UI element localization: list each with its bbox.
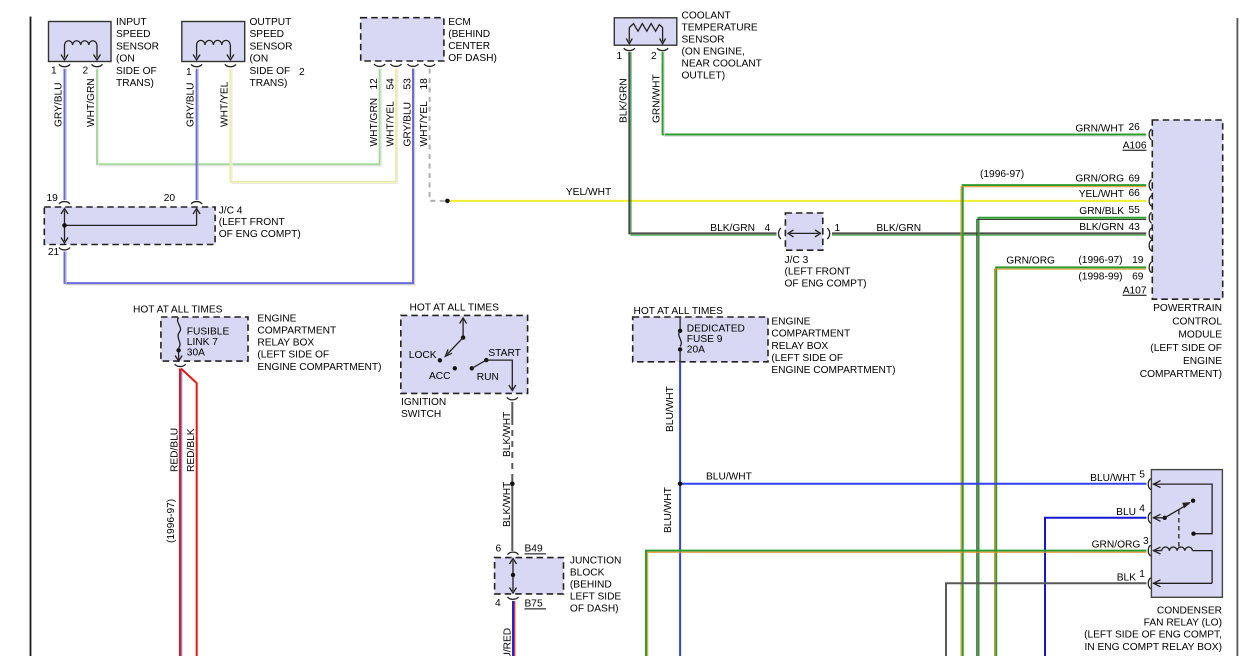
svg-text:SENSOR: SENSOR bbox=[682, 34, 725, 45]
svg-text:WHT/GRN: WHT/GRN bbox=[86, 78, 97, 127]
svg-text:ENGINE COMPARTMENT): ENGINE COMPARTMENT) bbox=[771, 365, 895, 376]
svg-text:ECM: ECM bbox=[448, 17, 471, 28]
svg-text:OF DASH): OF DASH) bbox=[448, 53, 497, 64]
wire GRN/WHT coolant sensor pin2 to PCM pin26 bbox=[663, 52, 1147, 135]
svg-text:53: 53 bbox=[403, 78, 414, 90]
wire RED/BLU from fusible link down bbox=[179, 369, 181, 657]
svg-text:SENSOR: SENSOR bbox=[116, 41, 159, 52]
svg-text:BLK/GRN: BLK/GRN bbox=[710, 223, 755, 234]
wire BLU to relay pin4 bbox=[1045, 518, 1146, 656]
splice dot BLK/WHT bbox=[510, 482, 515, 487]
relay pin arcs bbox=[1148, 479, 1150, 490]
svg-text:COMPARTMENT): COMPARTMENT) bbox=[1140, 369, 1222, 380]
svg-text:RELAY BOX: RELAY BOX bbox=[771, 341, 828, 352]
powertrain control module box bbox=[1152, 120, 1222, 299]
svg-text:MODULE: MODULE bbox=[1178, 330, 1222, 341]
svg-text:BLK/WHT: BLK/WHT bbox=[502, 412, 513, 457]
svg-text:LINK 7: LINK 7 bbox=[187, 337, 218, 348]
svg-text:RED/BLK: RED/BLK bbox=[186, 428, 197, 472]
svg-text:19: 19 bbox=[1132, 255, 1144, 266]
J/C3 internal double arrow bbox=[790, 232, 819, 234]
svg-text:69: 69 bbox=[1132, 271, 1144, 282]
svg-text:(1996-97): (1996-97) bbox=[166, 499, 177, 543]
svg-text:2: 2 bbox=[299, 67, 305, 78]
svg-text:20: 20 bbox=[164, 193, 176, 204]
svg-text:(BEHIND: (BEHIND bbox=[570, 580, 612, 591]
J/C 4 box bbox=[44, 207, 215, 245]
svg-text:LOCK: LOCK bbox=[409, 350, 437, 361]
wire WHT/YEL dashed from ECM pin18 bbox=[430, 69, 448, 201]
svg-text:OUTLET): OUTLET) bbox=[682, 70, 726, 81]
ignition switch connector arc bbox=[507, 397, 518, 399]
svg-text:START: START bbox=[488, 348, 520, 359]
wire BLK/GRN coolant sensor pin1 to J/C3 pin4 bbox=[629, 52, 776, 233]
svg-text:LEFT SIDE: LEFT SIDE bbox=[570, 592, 622, 603]
svg-text:IN ENG COMPT RELAY BOX): IN ENG COMPT RELAY BOX) bbox=[1084, 642, 1222, 653]
svg-text:2: 2 bbox=[83, 66, 89, 77]
svg-text:SPEED: SPEED bbox=[250, 29, 285, 40]
relay internal switch lever bbox=[1153, 517, 1165, 519]
wire WHT/YEL output sensor pin2 to ECM pin54 bbox=[230, 69, 396, 182]
svg-text:WHT/GRN: WHT/GRN bbox=[369, 98, 380, 147]
svg-text:6: 6 bbox=[496, 544, 502, 555]
svg-text:OF ENG COMPT): OF ENG COMPT) bbox=[219, 229, 301, 240]
svg-text:(1996-97): (1996-97) bbox=[1078, 255, 1122, 266]
svg-text:(LEFT FRONT: (LEFT FRONT bbox=[219, 217, 285, 228]
svg-text:21: 21 bbox=[48, 247, 60, 258]
svg-text:RUN: RUN bbox=[477, 372, 499, 383]
svg-text:4: 4 bbox=[765, 223, 771, 234]
svg-text:CENTER: CENTER bbox=[448, 41, 490, 52]
svg-text:(LEFT SIDE OF: (LEFT SIDE OF bbox=[1150, 343, 1222, 354]
svg-text:1: 1 bbox=[835, 223, 841, 234]
svg-text:BLK/GRN: BLK/GRN bbox=[1079, 222, 1124, 233]
svg-text:B75: B75 bbox=[525, 599, 543, 610]
svg-text:GRY/BLU: GRY/BLU bbox=[54, 82, 65, 127]
svg-text:ENGINE COMPARTMENT): ENGINE COMPARTMENT) bbox=[257, 362, 381, 373]
svg-text:ACC: ACC bbox=[429, 371, 451, 382]
wire YEL/WHT to PCM pin66 bbox=[447, 200, 1146, 202]
svg-text:1: 1 bbox=[1139, 569, 1145, 580]
svg-text:TRANS): TRANS) bbox=[250, 78, 288, 89]
svg-text:(1998-99): (1998-99) bbox=[1078, 271, 1122, 282]
svg-text:4: 4 bbox=[1139, 503, 1145, 514]
svg-text:A107: A107 bbox=[1123, 285, 1147, 296]
svg-text:WHT/YEL: WHT/YEL bbox=[419, 101, 430, 147]
svg-text:1: 1 bbox=[186, 67, 192, 78]
svg-text:ENGINE: ENGINE bbox=[771, 317, 810, 328]
wire WHT/GRN input sensor pin2 to ECM pin12 bbox=[97, 69, 380, 165]
PCM pin arcs bbox=[1149, 129, 1151, 140]
svg-text:GRN/BLK: GRN/BLK bbox=[1079, 206, 1124, 217]
svg-text:5: 5 bbox=[1139, 470, 1145, 481]
svg-text:4: 4 bbox=[495, 598, 501, 609]
wire BLK to relay pin1 bbox=[946, 583, 1146, 656]
svg-text:YEL/WHT: YEL/WHT bbox=[566, 187, 611, 198]
svg-text:SIDE OF: SIDE OF bbox=[250, 66, 291, 77]
svg-text:J/C 4: J/C 4 bbox=[219, 205, 243, 216]
svg-text:SPEED: SPEED bbox=[116, 29, 151, 40]
svg-text:INPUT: INPUT bbox=[116, 17, 147, 28]
svg-text:BLK: BLK bbox=[1117, 572, 1136, 583]
svg-text:TEMPERATURE: TEMPERATURE bbox=[682, 22, 758, 33]
svg-text:TRANS): TRANS) bbox=[116, 78, 154, 89]
splice dot BLU/WHT bbox=[678, 482, 683, 487]
svg-text:(LEFT SIDE OF: (LEFT SIDE OF bbox=[771, 353, 843, 364]
svg-text:43: 43 bbox=[1129, 222, 1141, 233]
svg-text:OUTPUT: OUTPUT bbox=[250, 17, 292, 28]
svg-text:COMPARTMENT: COMPARTMENT bbox=[771, 329, 850, 340]
svg-text:54: 54 bbox=[386, 78, 397, 90]
input sensor coil bbox=[65, 41, 97, 45]
svg-text:FUSE 9: FUSE 9 bbox=[687, 334, 723, 345]
wire GRN/BLK PCM pin55 down off page bbox=[979, 218, 1147, 656]
svg-text:YEL/WHT: YEL/WHT bbox=[1079, 189, 1124, 200]
svg-text:30A: 30A bbox=[187, 348, 205, 359]
svg-text:BLK/GRN: BLK/GRN bbox=[618, 78, 629, 123]
svg-text:69: 69 bbox=[1129, 173, 1141, 184]
svg-text:SWITCH: SWITCH bbox=[401, 409, 441, 420]
svg-text:BLU: BLU bbox=[1116, 507, 1136, 518]
wire GRY/BLU J/C4 pin21 to ECM pin53 bbox=[65, 69, 414, 284]
svg-text:20A: 20A bbox=[687, 345, 705, 356]
connector arcs under coolant sensor bbox=[624, 48, 635, 50]
svg-text:GRN/ORG: GRN/ORG bbox=[1006, 256, 1055, 267]
J/C 3 box bbox=[785, 213, 822, 250]
coolant temperature sensor box bbox=[614, 18, 677, 45]
fusible link connector arc bbox=[175, 364, 186, 366]
svg-text:IGNITION: IGNITION bbox=[401, 397, 446, 408]
svg-text:BLOCK: BLOCK bbox=[570, 568, 605, 579]
relay coil pin3 bbox=[1153, 550, 1162, 552]
wire BLK/GRN J/C3 pin1 to PCM pin43 bbox=[832, 232, 1146, 234]
wire GRY/BLU output sensor pin1 to J/C4 pin20 bbox=[196, 69, 198, 200]
J/C3 right pin arc bbox=[827, 228, 829, 239]
svg-text:1: 1 bbox=[617, 51, 623, 62]
svg-text:A106: A106 bbox=[1123, 140, 1147, 151]
wire GRN/ORG PCM pin19 down off page bbox=[996, 267, 1146, 656]
svg-text:ENGINE: ENGINE bbox=[1183, 356, 1222, 367]
wire GRY/BLU input sensor pin1 to J/C4 pin19 bbox=[64, 69, 66, 200]
svg-text:55: 55 bbox=[1129, 205, 1141, 216]
J/C4 internal arrows bbox=[64, 211, 66, 242]
svg-text:HOT AT ALL TIMES: HOT AT ALL TIMES bbox=[133, 304, 223, 315]
svg-text:GRN/ORG: GRN/ORG bbox=[1092, 540, 1141, 551]
svg-text:B49: B49 bbox=[525, 544, 543, 555]
frame right border bbox=[1236, 18, 1238, 656]
wire GRN/ORG PCM pin69 down off page bbox=[963, 185, 1146, 656]
connector arcs under output sensor bbox=[191, 64, 202, 66]
svg-text:(LEFT SIDE OF ENG COMPT,: (LEFT SIDE OF ENG COMPT, bbox=[1084, 630, 1222, 641]
svg-text:CONDENSER: CONDENSER bbox=[1157, 606, 1222, 617]
svg-text:19: 19 bbox=[47, 193, 59, 204]
svg-text:NEAR COOLANT: NEAR COOLANT bbox=[682, 58, 762, 69]
svg-text:DEDICATED: DEDICATED bbox=[687, 324, 745, 335]
svg-text:66: 66 bbox=[1129, 188, 1141, 199]
svg-text:1: 1 bbox=[51, 66, 57, 77]
svg-text:ENGINE: ENGINE bbox=[257, 313, 296, 324]
wire GRN/ORG to relay pin3 bbox=[646, 551, 1146, 656]
condenser fan relay box bbox=[1151, 470, 1222, 598]
wire BLU/RED junction block pin4 down bbox=[512, 601, 514, 656]
ECM box bbox=[361, 18, 444, 61]
svg-text:GRY/BLU: GRY/BLU bbox=[403, 102, 414, 147]
wire BLU/WHT dedicated fuse down off page bbox=[679, 362, 681, 656]
svg-text:RELAY BOX: RELAY BOX bbox=[257, 338, 314, 349]
svg-text:BLU/WHT: BLU/WHT bbox=[665, 386, 676, 432]
svg-text:(ON: (ON bbox=[250, 54, 269, 65]
input speed sensor box bbox=[49, 22, 112, 62]
svg-text:SENSOR: SENSOR bbox=[250, 41, 293, 52]
ignition switch box bbox=[401, 315, 528, 393]
connector arcs under ECM bbox=[374, 64, 385, 66]
svg-text:(BEHIND: (BEHIND bbox=[448, 29, 490, 40]
J/C4 pin21 arc bbox=[59, 248, 70, 250]
svg-text:CONTROL: CONTROL bbox=[1172, 316, 1222, 327]
relay internal pin1 path bbox=[1153, 582, 1212, 584]
svg-text:GRN/ORG: GRN/ORG bbox=[1075, 173, 1124, 184]
svg-text:(ON ENGINE,: (ON ENGINE, bbox=[682, 46, 745, 57]
relay internal pin5 path bbox=[1153, 484, 1212, 534]
dedicated fuse 9 box bbox=[633, 317, 768, 362]
svg-text:WHT/YEL: WHT/YEL bbox=[220, 81, 231, 127]
dedicated fuse 9 symbol bbox=[679, 318, 681, 331]
output speed sensor box bbox=[182, 22, 245, 62]
output sensor coil bbox=[197, 40, 231, 45]
svg-text:(LEFT FRONT: (LEFT FRONT bbox=[785, 267, 851, 278]
svg-text:SIDE OF: SIDE OF bbox=[116, 66, 157, 77]
svg-text:(LEFT SIDE OF: (LEFT SIDE OF bbox=[257, 350, 329, 361]
svg-text:BLU/RED: BLU/RED bbox=[503, 628, 514, 656]
relay dashed actuator link bbox=[1178, 510, 1180, 548]
svg-text:COMPARTMENT: COMPARTMENT bbox=[257, 326, 336, 337]
svg-text:OF ENG COMPT): OF ENG COMPT) bbox=[785, 278, 867, 289]
frame left border bbox=[30, 17, 32, 657]
svg-text:(ON: (ON bbox=[116, 54, 135, 65]
svg-text:GRN/WHT: GRN/WHT bbox=[652, 74, 663, 123]
wire BLK/WHT ignition switch to junction block pin6 bbox=[511, 402, 513, 419]
svg-text:J/C 3: J/C 3 bbox=[785, 255, 809, 266]
svg-text:HOT AT ALL TIMES: HOT AT ALL TIMES bbox=[634, 306, 724, 317]
connector arcs under input sensor bbox=[59, 64, 70, 66]
svg-text:GRY/BLU: GRY/BLU bbox=[186, 82, 197, 127]
svg-text:GRN/WHT: GRN/WHT bbox=[1075, 123, 1124, 134]
junction block pin4 arc bbox=[508, 597, 519, 599]
fusible link 7 symbol bbox=[178, 318, 181, 349]
svg-text:18: 18 bbox=[419, 78, 430, 90]
wire BLU/WHT horizontal to relay pin5 bbox=[680, 483, 1146, 485]
junction block pin6 arc bbox=[508, 552, 519, 554]
J/C3 left pin arc bbox=[779, 228, 781, 239]
svg-text:HOT AT ALL TIMES: HOT AT ALL TIMES bbox=[410, 303, 500, 314]
junction block box bbox=[495, 558, 564, 594]
svg-text:12: 12 bbox=[369, 78, 380, 90]
svg-text:26: 26 bbox=[1129, 122, 1141, 133]
J/C4 pin19 arc bbox=[59, 202, 70, 204]
junction block internal arrows bbox=[512, 561, 514, 592]
svg-text:COOLANT: COOLANT bbox=[682, 10, 731, 21]
svg-text:POWERTRAIN: POWERTRAIN bbox=[1153, 303, 1222, 314]
svg-text:WHT/YEL: WHT/YEL bbox=[386, 101, 397, 147]
svg-text:3: 3 bbox=[1143, 536, 1149, 547]
svg-text:BLU/WHT: BLU/WHT bbox=[706, 472, 752, 483]
svg-text:OF DASH): OF DASH) bbox=[570, 604, 619, 615]
svg-text:FUSIBLE: FUSIBLE bbox=[187, 327, 230, 338]
svg-text:FAN RELAY (LO): FAN RELAY (LO) bbox=[1144, 618, 1222, 629]
svg-text:JUNCTION: JUNCTION bbox=[570, 556, 622, 567]
svg-text:BLU/WHT: BLU/WHT bbox=[1090, 473, 1136, 484]
fusible link 7 box bbox=[161, 317, 248, 361]
wire RED/BLK branch from fusible link down bbox=[181, 369, 197, 657]
svg-text:BLK/GRN: BLK/GRN bbox=[876, 223, 921, 234]
coolant sensor resistor bbox=[629, 24, 662, 32]
ignition switch internals bbox=[462, 318, 464, 338]
splice dot J/C4 bbox=[62, 223, 67, 228]
svg-text:2: 2 bbox=[651, 51, 657, 62]
svg-text:BLU/WHT: BLU/WHT bbox=[663, 487, 674, 533]
svg-text:BLK/WHT: BLK/WHT bbox=[502, 482, 513, 527]
svg-text:RED/BLU: RED/BLU bbox=[170, 428, 181, 472]
splice dot on YEL/WHT at ECM18 bbox=[445, 199, 450, 204]
svg-text:(1996-97): (1996-97) bbox=[980, 169, 1024, 180]
J/C4 pin20 arc bbox=[191, 202, 202, 204]
